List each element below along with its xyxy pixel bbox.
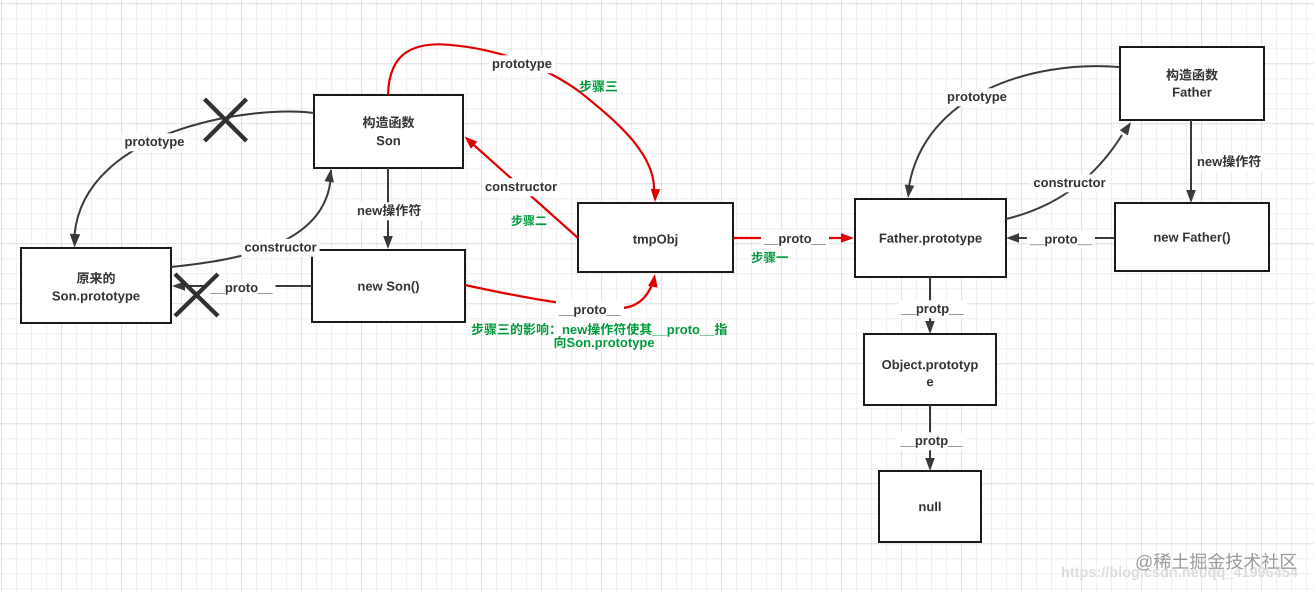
label new操作符 (left) xyxy=(354,202,424,220)
label __proto__ (right) xyxy=(1027,231,1095,249)
label prototype (red top) xyxy=(489,55,555,73)
label __proto__ (left) xyxy=(207,279,275,297)
wire W8: __proto__ new Father() to Father.prototype xyxy=(1006,233,1115,243)
box U7: new Father() xyxy=(1115,203,1269,271)
label __protp__ (lower) xyxy=(897,432,965,450)
note green step3 effect line1 xyxy=(472,323,727,337)
wire W1: prototype arrow Son to old Son.prototype xyxy=(70,112,314,248)
box U3: new Son() xyxy=(312,250,465,322)
label 步骤三 green xyxy=(580,80,618,92)
label __proto__ (tmpObj right) xyxy=(761,230,829,248)
wire W5: prototype Father to Father.prototype xyxy=(905,66,1119,198)
watermark csdn url xyxy=(1062,566,1298,580)
wire W10: __protp__ Object.prototype to null xyxy=(925,405,935,471)
red wire R3: __proto__ tmpObj to Father.prototype (step1) xyxy=(733,233,854,243)
wire W2: constructor arrow old Son.prototype to Son xyxy=(171,169,334,267)
label constructor (left) xyxy=(241,239,319,257)
red wire R1: prototype Son to tmpObj (step3) xyxy=(388,44,660,202)
box U6: 构造函数 Father xyxy=(1120,47,1264,120)
label 步骤二 green xyxy=(512,215,547,226)
box U5: Father.prototype xyxy=(855,199,1006,277)
label prototype (right) xyxy=(944,88,1010,106)
label constructor (middle) xyxy=(482,178,560,196)
box U2: 原来的 Son.prototype xyxy=(21,248,171,323)
wire W9: __protp__ Father.prototype to Object.prototype xyxy=(925,277,935,334)
wire W7: new操作符 arrow Father to new Father() xyxy=(1186,120,1196,203)
label constructor (right) xyxy=(1030,174,1108,192)
X mark K2 on __proto__ arrow xyxy=(175,274,218,316)
label 步骤一 green xyxy=(752,251,788,263)
box U4: tmpObj xyxy=(578,203,733,272)
wire W6: constructor Father.prototype to Father xyxy=(1006,122,1131,219)
box U8: Object.prototype xyxy=(864,334,996,405)
label __proto__ (new Son right) xyxy=(556,301,624,319)
label prototype (left) xyxy=(122,133,188,151)
wire W3: new操作符 arrow Son to new Son() xyxy=(383,168,393,249)
box U1: 构造函数 Son xyxy=(314,95,463,168)
X mark K1 on prototype arrow xyxy=(205,99,247,141)
wire W4: __proto__ arrow new Son() to old Son.prototype xyxy=(172,281,312,291)
label new操作符 (right) xyxy=(1194,153,1264,171)
red wire R2: constructor tmpObj to Son (step2) xyxy=(465,137,579,239)
watermark juejin community xyxy=(1136,553,1296,571)
box U9: null xyxy=(879,471,981,542)
red wire R4: __proto__ new Son() to tmpObj xyxy=(465,274,658,308)
note green step3 effect line2 xyxy=(555,336,655,350)
label __protp__ (upper) xyxy=(898,300,966,318)
